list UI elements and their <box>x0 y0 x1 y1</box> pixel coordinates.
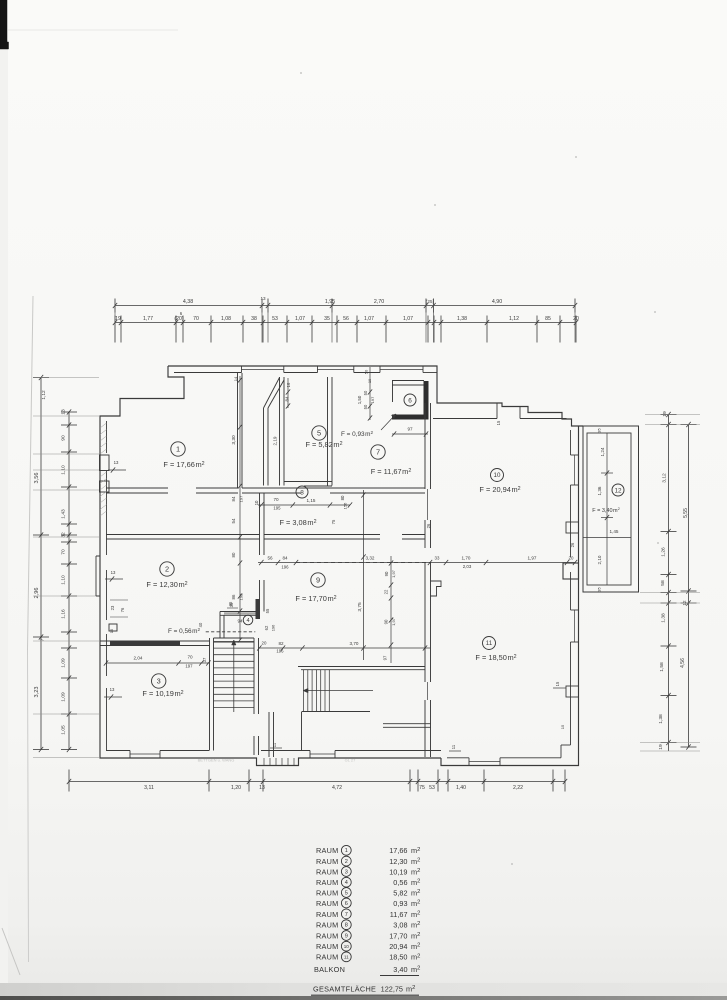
svg-text:196: 196 <box>276 649 284 654</box>
svg-text:1,97: 1,97 <box>391 570 396 578</box>
svg-text:1,40: 1,40 <box>456 785 466 791</box>
svg-text:53: 53 <box>429 785 435 791</box>
svg-text:84: 84 <box>282 556 288 561</box>
svg-text:F = 11,67 m2: F = 11,67 m2 <box>371 467 412 476</box>
svg-text:1,97: 1,97 <box>528 556 537 561</box>
svg-text:1,43: 1,43 <box>61 509 67 519</box>
svg-text:F = 5,82 m2: F = 5,82 m2 <box>305 440 342 449</box>
svg-text:2,03: 2,03 <box>463 564 472 569</box>
svg-text:11: 11 <box>344 955 349 960</box>
svg-text:75: 75 <box>331 519 336 524</box>
svg-text:80: 80 <box>340 495 345 500</box>
svg-text:3,23: 3,23 <box>34 687 40 698</box>
svg-text:1,10: 1,10 <box>61 575 67 585</box>
svg-text:13: 13 <box>259 785 265 791</box>
svg-text:GL 27: GL 27 <box>345 758 357 763</box>
svg-text:F = 0,93 m2: F = 0,93 m2 <box>341 430 373 438</box>
svg-text:10,19: 10,19 <box>389 867 407 876</box>
svg-text:20: 20 <box>573 316 579 322</box>
svg-text:50: 50 <box>364 369 369 374</box>
svg-text:197: 197 <box>239 495 244 502</box>
svg-text:4,72: 4,72 <box>332 785 342 791</box>
svg-text:80: 80 <box>231 552 236 557</box>
svg-text:2,70: 2,70 <box>374 299 384 305</box>
svg-text:84: 84 <box>285 396 290 401</box>
svg-text:23: 23 <box>110 605 115 610</box>
svg-text:12: 12 <box>614 487 622 494</box>
svg-text:5: 5 <box>317 429 321 438</box>
svg-text:1,05: 1,05 <box>61 725 67 735</box>
svg-text:4,90: 4,90 <box>492 299 502 305</box>
svg-text:53: 53 <box>272 316 278 322</box>
svg-text:8: 8 <box>300 489 304 496</box>
svg-text:9: 9 <box>316 576 320 585</box>
svg-text:97: 97 <box>383 655 388 660</box>
svg-text:35: 35 <box>228 601 233 606</box>
svg-text:8: 8 <box>345 923 348 929</box>
svg-text:1,26: 1,26 <box>661 547 667 557</box>
svg-text:35: 35 <box>324 316 330 322</box>
svg-text:20,94: 20,94 <box>389 942 407 951</box>
svg-text:19: 19 <box>662 411 668 417</box>
svg-text:2,10: 2,10 <box>597 555 602 564</box>
svg-text:14: 14 <box>233 376 238 381</box>
svg-text:1,38: 1,38 <box>457 316 467 322</box>
svg-text:13: 13 <box>114 460 119 465</box>
svg-text:10: 10 <box>254 500 259 505</box>
svg-text:10: 10 <box>344 944 350 949</box>
svg-text:0,56: 0,56 <box>393 878 407 887</box>
svg-text:BALKON: BALKON <box>314 965 345 974</box>
svg-text:4,38: 4,38 <box>183 299 193 305</box>
svg-text:F = 10,19 m2: F = 10,19 m2 <box>142 689 183 698</box>
svg-text:94: 94 <box>237 619 243 624</box>
svg-text:70: 70 <box>61 549 67 555</box>
svg-text:1,38: 1,38 <box>661 613 667 623</box>
svg-text:156: 156 <box>343 502 348 509</box>
svg-text:35: 35 <box>597 428 602 433</box>
svg-text:RAUM: RAUM <box>316 846 339 855</box>
svg-text:4: 4 <box>345 880 348 886</box>
svg-text:15: 15 <box>109 628 114 633</box>
svg-text:2,19: 2,19 <box>273 436 278 445</box>
svg-text:RAUM: RAUM <box>316 899 339 908</box>
svg-text:16: 16 <box>286 382 291 387</box>
svg-text:RAUM: RAUM <box>316 867 339 876</box>
svg-text:62: 62 <box>264 625 269 630</box>
svg-text:2: 2 <box>165 565 169 574</box>
svg-text:7: 7 <box>376 448 380 457</box>
svg-text:18,50: 18,50 <box>389 953 407 962</box>
svg-text:70: 70 <box>273 497 279 502</box>
svg-text:9: 9 <box>345 933 348 939</box>
svg-text:90: 90 <box>384 571 389 576</box>
svg-text:20: 20 <box>569 556 574 561</box>
svg-text:RAUM: RAUM <box>316 953 339 962</box>
svg-text:1,50: 1,50 <box>357 395 362 404</box>
svg-text:5: 5 <box>345 890 348 896</box>
svg-text:F = 17,66 m2: F = 17,66 m2 <box>163 460 204 469</box>
svg-text:19: 19 <box>658 744 664 750</box>
svg-text:26: 26 <box>426 523 431 528</box>
svg-text:55: 55 <box>265 608 270 613</box>
svg-text:3,40: 3,40 <box>393 965 407 974</box>
svg-text:3,12: 3,12 <box>662 473 668 483</box>
svg-text:56: 56 <box>267 556 273 561</box>
svg-text:5,82: 5,82 <box>393 888 407 897</box>
svg-text:197: 197 <box>370 396 375 403</box>
svg-text:1,58: 1,58 <box>659 662 665 672</box>
svg-text:1,36: 1,36 <box>597 486 602 495</box>
svg-text:2,22: 2,22 <box>513 785 523 791</box>
svg-text:RAUM: RAUM <box>316 888 339 897</box>
svg-text:50: 50 <box>363 390 368 395</box>
svg-text:122,75: 122,75 <box>381 984 403 993</box>
svg-text:197: 197 <box>185 664 193 669</box>
svg-text:56: 56 <box>343 316 349 322</box>
svg-text:84: 84 <box>231 496 236 501</box>
svg-text:1,45: 1,45 <box>610 529 619 534</box>
svg-text:35: 35 <box>597 587 602 592</box>
svg-text:15: 15 <box>555 681 560 686</box>
svg-text:1,97: 1,97 <box>391 618 396 626</box>
svg-text:F = 12,30 m2: F = 12,30 m2 <box>146 580 187 589</box>
svg-text:1,09: 1,09 <box>61 658 67 668</box>
svg-text:19: 19 <box>115 316 121 322</box>
svg-text:RAUM: RAUM <box>316 910 339 919</box>
svg-text:54: 54 <box>231 518 236 523</box>
svg-text:10: 10 <box>494 472 501 479</box>
svg-text:5,55: 5,55 <box>683 508 689 518</box>
svg-text:196: 196 <box>271 625 276 632</box>
svg-text:1,16: 1,16 <box>61 609 67 619</box>
svg-text:22: 22 <box>384 589 389 594</box>
svg-text:3,08: 3,08 <box>393 921 407 930</box>
svg-text:6: 6 <box>408 397 412 404</box>
svg-text:75: 75 <box>419 785 425 791</box>
svg-text:7: 7 <box>345 912 348 918</box>
svg-text:3,30: 3,30 <box>231 435 237 445</box>
svg-text:1,38: 1,38 <box>658 714 664 724</box>
svg-text:198: 198 <box>239 593 244 600</box>
svg-text:0,93: 0,93 <box>393 899 407 908</box>
svg-text:3,11: 3,11 <box>144 785 154 791</box>
svg-text:1,24: 1,24 <box>600 447 605 456</box>
svg-text:90: 90 <box>384 619 389 624</box>
svg-text:4,56: 4,56 <box>680 658 686 668</box>
svg-text:2,04: 2,04 <box>134 656 143 661</box>
svg-text:13: 13 <box>260 296 266 301</box>
svg-text:70: 70 <box>193 316 199 322</box>
svg-text:RAUM: RAUM <box>316 942 339 951</box>
svg-text:1: 1 <box>345 848 348 854</box>
svg-text:(20): (20) <box>174 316 183 322</box>
svg-text:1,20: 1,20 <box>231 785 241 791</box>
svg-text:RAUM: RAUM <box>316 931 339 940</box>
svg-text:F = 0,56 m2: F = 0,56 m2 <box>168 627 200 635</box>
svg-text:195: 195 <box>273 506 281 511</box>
svg-text:38: 38 <box>251 316 257 322</box>
svg-text:BETTGEN u. WANG: BETTGEN u. WANG <box>198 758 235 763</box>
svg-text:F = 3,40 m2: F = 3,40 m2 <box>592 506 620 514</box>
svg-text:3: 3 <box>345 869 348 875</box>
svg-text:85: 85 <box>545 316 551 322</box>
svg-text:90: 90 <box>61 435 67 441</box>
svg-text:1: 1 <box>176 445 180 454</box>
svg-text:82: 82 <box>278 641 284 646</box>
svg-text:1,08: 1,08 <box>221 316 231 322</box>
svg-text:6: 6 <box>345 901 348 907</box>
svg-text:17,70: 17,70 <box>389 931 407 940</box>
svg-text:4: 4 <box>246 618 249 624</box>
svg-text:F = 18,50 m2: F = 18,50 m2 <box>475 653 516 662</box>
svg-text:1,09: 1,09 <box>61 692 67 702</box>
svg-text:50: 50 <box>363 404 368 409</box>
svg-text:11: 11 <box>272 742 277 747</box>
svg-text:15: 15 <box>496 420 501 425</box>
svg-text:1,12: 1,12 <box>509 316 519 322</box>
svg-text:1,77: 1,77 <box>143 316 153 322</box>
svg-text:12,30: 12,30 <box>389 857 407 866</box>
svg-text:1,70: 1,70 <box>462 556 471 561</box>
svg-text:26: 26 <box>570 542 575 547</box>
svg-text:1,07: 1,07 <box>364 316 374 322</box>
svg-text:11,67: 11,67 <box>390 910 408 919</box>
svg-text:11: 11 <box>451 744 456 749</box>
svg-text:RAUM: RAUM <box>316 878 339 887</box>
svg-text:11: 11 <box>486 640 493 647</box>
svg-text:2: 2 <box>345 859 348 865</box>
svg-text:20: 20 <box>262 641 267 646</box>
svg-text:1,95: 1,95 <box>325 299 335 305</box>
svg-text:13: 13 <box>61 409 67 415</box>
svg-text:15: 15 <box>560 724 565 729</box>
svg-text:GESAMTFLÄCHE: GESAMTFLÄCHE <box>313 984 376 993</box>
svg-text:17,66: 17,66 <box>389 846 407 855</box>
svg-text:F = 20,94 m2: F = 20,94 m2 <box>479 485 520 494</box>
svg-text:RAUM: RAUM <box>316 857 339 866</box>
svg-text:70: 70 <box>187 655 193 660</box>
svg-text:3,70: 3,70 <box>350 641 359 646</box>
svg-text:37: 37 <box>202 657 207 662</box>
svg-text:2,96: 2,96 <box>34 588 40 599</box>
svg-text:33: 33 <box>435 556 440 561</box>
svg-text:1,15: 1,15 <box>307 498 316 503</box>
svg-text:1,07: 1,07 <box>403 316 413 322</box>
svg-text:3,32: 3,32 <box>366 556 375 561</box>
svg-text:196: 196 <box>281 565 289 570</box>
svg-text:58: 58 <box>660 580 666 586</box>
svg-text:RAUM: RAUM <box>316 921 339 930</box>
svg-text:86: 86 <box>231 594 236 599</box>
svg-text:3: 3 <box>157 677 161 686</box>
svg-text:1,12: 1,12 <box>41 390 47 400</box>
svg-text:3,56: 3,56 <box>34 473 40 484</box>
svg-text:F = 3,08 m2: F = 3,08 m2 <box>279 518 316 527</box>
svg-text:1,07: 1,07 <box>295 316 305 322</box>
svg-text:13: 13 <box>110 687 115 692</box>
svg-text:13: 13 <box>111 570 116 575</box>
svg-text:3,75: 3,75 <box>357 602 363 612</box>
svg-text:97: 97 <box>407 427 413 432</box>
svg-text:76: 76 <box>120 607 125 612</box>
svg-text:F = 17,70 m2: F = 17,70 m2 <box>295 594 336 603</box>
